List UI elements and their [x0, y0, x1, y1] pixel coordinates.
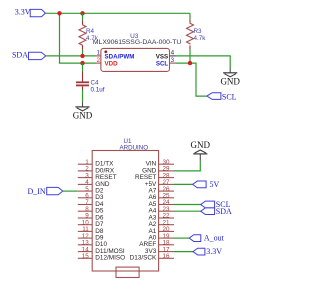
svg-text:15: 15 — [82, 253, 90, 260]
pin 28 RESET — [159, 177, 174, 179]
svg-text:5V: 5V — [210, 180, 220, 189]
pin 4 GND — [78, 183, 92, 185]
svg-text:GND: GND — [73, 111, 93, 121]
pin 5 D2 — [78, 190, 92, 192]
svg-text:0.1uf: 0.1uf — [91, 87, 105, 94]
U3 pin 2 VDD — [96, 62, 101, 64]
resistor R4 4.7k — [79, 13, 99, 56]
pin 17 3V3 — [159, 251, 174, 253]
pin 1 D1/TX — [78, 163, 92, 165]
pin 19 A0 — [159, 237, 174, 239]
pin 29 GND — [159, 170, 174, 172]
pin 7 D4 — [78, 204, 92, 206]
svg-text:SCL: SCL — [156, 61, 169, 68]
svg-text:A_out: A_out — [204, 234, 225, 243]
pin 24 A5 — [159, 204, 174, 206]
junction dot R4/SDA — [80, 54, 84, 58]
IC U1 ARDUINO — [92, 138, 158, 271]
pin 2 D0/RX — [78, 170, 92, 172]
wire SCL pin to port — [176, 63, 207, 96]
ground (top right) — [220, 68, 240, 86]
net port SCL (top right) — [207, 92, 237, 101]
capacitor C4 0.1uf — [76, 63, 105, 102]
pin 23 A4 — [159, 210, 174, 212]
pin 3 RESET — [78, 177, 92, 179]
wire 3.3V rail top — [46, 12, 190, 14]
pin 15 D12/MISO — [78, 257, 92, 259]
wire rail drop to VDD pin — [60, 13, 97, 63]
junction dot R3/SCL — [188, 61, 192, 65]
ground (arduino, flipped up) — [191, 140, 211, 161]
svg-text:MLX90615SSG-DAA-000-TU: MLX90615SSG-DAA-000-TU — [93, 39, 181, 46]
U1 left pins — [78, 159, 125, 262]
net port 5V — [193, 180, 220, 189]
pin 18 AREF — [159, 244, 174, 246]
pin 20 A1 — [159, 230, 174, 232]
pin 30 VIN — [159, 163, 174, 165]
svg-text:SDA: SDA — [216, 207, 232, 216]
pin 25 A6 — [159, 197, 174, 199]
pin 27 +5V — [159, 183, 174, 185]
pin 22 A3 — [159, 217, 174, 219]
net port SDA (arduino) — [201, 207, 232, 216]
U1 right pins — [130, 159, 174, 262]
U3 pin 1 SDA/PWM — [96, 55, 101, 57]
svg-text:VDD: VDD — [105, 61, 119, 68]
svg-text:SDA: SDA — [12, 51, 28, 60]
pin 16 D13/SCK — [159, 257, 174, 259]
junction dot rail left — [57, 11, 61, 15]
ground (below C4) — [73, 102, 93, 120]
pin 21 A2 — [159, 224, 174, 226]
svg-text:SCL: SCL — [222, 92, 237, 101]
IC U3 MLX90615 — [93, 33, 181, 71]
U3 pin 3 SCL — [170, 62, 177, 64]
wire VSS to ground — [176, 56, 230, 68]
svg-text:D13/SCK: D13/SCK — [130, 255, 157, 262]
pin 12 D9 — [78, 237, 92, 239]
resistor R3 4.7k — [187, 13, 207, 63]
net port A_out — [189, 234, 224, 243]
wire SDA to U3 pin1 — [46, 55, 96, 57]
power port 3.3V (top left) — [15, 8, 46, 17]
svg-text:D_IN: D_IN — [27, 187, 45, 196]
wire D_IN to D2 — [63, 190, 78, 192]
svg-text:SDA/PWM: SDA/PWM — [105, 53, 135, 60]
svg-text:16: 16 — [163, 253, 171, 260]
net port SDA (left) — [12, 51, 46, 60]
pin 9 D6 — [78, 217, 92, 219]
net port 3.3V (arduino) — [193, 247, 222, 256]
net port D_IN (left) — [27, 187, 62, 196]
wire +5V to port — [174, 183, 193, 185]
pin 14 D11/MOSI — [78, 251, 92, 253]
svg-text:D12/MISO: D12/MISO — [95, 255, 125, 262]
wire GND pin29 up — [174, 161, 200, 171]
net port SCL (arduino) — [201, 200, 231, 209]
pin 8 D5 — [78, 210, 92, 212]
svg-text:GND: GND — [220, 76, 240, 86]
wire A5 to SCL port — [174, 204, 201, 206]
pin 26 A7 — [159, 190, 174, 192]
svg-text:4.7k: 4.7k — [194, 35, 207, 42]
pin 6 D3 — [78, 197, 92, 199]
svg-text:3.3V: 3.3V — [206, 247, 222, 256]
junction dot VDD/C4 — [80, 61, 84, 65]
wire 3V3 to 3.3V port — [174, 251, 193, 253]
wire A0 to A_out port — [174, 237, 189, 239]
pin 11 D8 — [78, 230, 92, 232]
U3 pin 4 VSS — [170, 55, 177, 57]
svg-text:C4: C4 — [91, 80, 100, 87]
svg-text:VSS: VSS — [156, 53, 168, 60]
svg-text:GND: GND — [191, 140, 211, 150]
svg-text:3.3V: 3.3V — [15, 8, 31, 17]
pin 13 D10 — [78, 244, 92, 246]
wire A4 to SDA port — [174, 210, 201, 212]
U1 usb connector block — [116, 267, 139, 277]
pin 10 D7 — [78, 224, 92, 226]
junction dot rail right — [80, 11, 84, 15]
